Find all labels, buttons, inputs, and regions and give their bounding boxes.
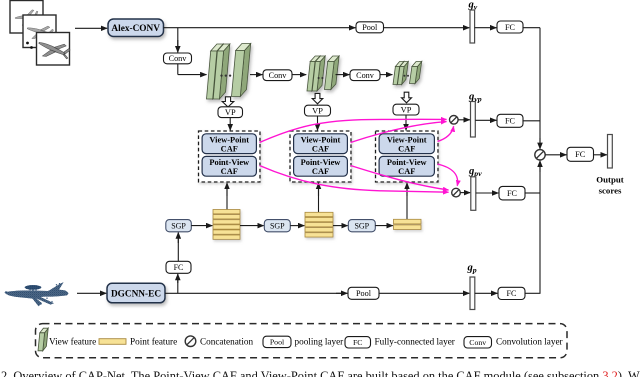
- wire stack2 to Point-View CAF2: [318, 184, 320, 212]
- wire VP3 to CAF3: [405, 115, 407, 130]
- g_pv bar: [471, 177, 476, 211]
- view feature maps 3: [393, 62, 422, 85]
- concat (final): [535, 150, 545, 160]
- CAF module 2 (dashed): [290, 131, 351, 182]
- legend FC: [345, 337, 371, 348]
- wire VP2 to CAF2: [317, 116, 319, 130]
- view feature maps 2: [307, 56, 339, 91]
- wire FC to bus: [523, 27, 540, 29]
- svg-text:Point-View: Point-View: [209, 158, 249, 167]
- FC (g_p): [498, 287, 525, 299]
- Conv3: [350, 70, 380, 81]
- svg-text:Conv: Conv: [269, 71, 288, 80]
- svg-text:FC: FC: [505, 117, 516, 126]
- svg-text:Convolution layer: Convolution layer: [496, 336, 563, 346]
- wire Conv3 to view feature 3: [380, 74, 392, 76]
- CAF module 3 (dashed): [376, 131, 439, 182]
- CAF module 1 (dashed): [199, 131, 261, 182]
- legend box: [36, 324, 568, 358]
- svg-text:View-Point: View-Point: [301, 135, 341, 144]
- block arrow 1: [222, 97, 234, 107]
- wire up to FC (point): [177, 277, 179, 294]
- svg-text:FC: FC: [575, 150, 586, 159]
- Point-View CAF 2: [294, 156, 348, 176]
- svg-text:Concatenation: Concatenation: [200, 336, 253, 346]
- output scores bar: [608, 135, 613, 169]
- Alex-CONV box: [108, 19, 164, 37]
- block arrow 2: [312, 93, 323, 103]
- svg-text:Fully-connected layer: Fully-connected layer: [375, 336, 455, 346]
- concat g_pv: [452, 188, 461, 197]
- wire DGCNN to Pool (bottom): [165, 292, 345, 294]
- legend view feature icon: [43, 328, 48, 351]
- legend Pool: [263, 336, 291, 347]
- SGP3: [348, 220, 375, 232]
- wire down to Conv1: [177, 28, 179, 50]
- svg-text:VP: VP: [401, 106, 412, 115]
- input view images stack: [10, 1, 73, 67]
- Conv1: [164, 53, 192, 64]
- svg-text:2. Overview of CAP-Net. The Po: 2. Overview of CAP-Net. The Point-View C…: [1, 369, 640, 377]
- svg-text:View-Point: View-Point: [387, 135, 427, 144]
- svg-text:Point-View: Point-View: [387, 158, 427, 167]
- legend Conv: [464, 337, 492, 348]
- svg-text:Conv: Conv: [169, 54, 188, 63]
- FC (g_v): [497, 21, 523, 33]
- point cloud airplane: [5, 282, 69, 306]
- Point-View CAF 3: [379, 156, 434, 176]
- view feature maps 1: [207, 44, 251, 100]
- svg-text:Pool: Pool: [356, 289, 372, 298]
- point feature stack 3: [394, 219, 422, 229]
- View-Point CAF 3: [379, 134, 434, 154]
- fusion curves View-Point CAFs to g_vp concat: [260, 119, 447, 142]
- svg-text:FC: FC: [507, 189, 518, 198]
- wire stack1 to SGP2: [240, 225, 264, 227]
- arrow to Alex-CONV: [75, 27, 107, 29]
- View-Point CAF 2: [294, 134, 348, 154]
- svg-text:CAF: CAF: [312, 167, 329, 176]
- View-Point CAF 1: [202, 134, 256, 154]
- svg-text:VP: VP: [312, 107, 323, 116]
- FC (final): [567, 147, 594, 161]
- wire stack2 to SGP3: [333, 225, 348, 227]
- SGP2: [264, 220, 290, 232]
- Pool (top): [356, 22, 384, 33]
- wire stack1 to Point-View CAF1: [226, 184, 228, 210]
- legend point feature icon: [99, 339, 126, 345]
- point feature stack 2: [305, 212, 333, 237]
- svg-text:DGCNN-EC: DGCNN-EC: [111, 290, 161, 300]
- svg-text:FC: FC: [505, 23, 516, 32]
- concat g_vp: [450, 116, 459, 125]
- svg-text:Conv: Conv: [356, 71, 375, 80]
- wire SGP3 to stack3: [375, 225, 393, 227]
- g_p bar: [470, 277, 475, 310]
- Conv2: [263, 70, 292, 81]
- svg-text:View feature: View feature: [49, 336, 96, 346]
- svg-text:View-Point: View-Point: [209, 135, 249, 144]
- g_v bar: [470, 10, 475, 43]
- svg-text:Pool: Pool: [270, 338, 285, 347]
- svg-text:CAF: CAF: [398, 144, 415, 153]
- svg-text:pooling layer: pooling layer: [295, 336, 344, 346]
- svg-text:VP: VP: [225, 108, 236, 117]
- svg-text:FC: FC: [174, 263, 184, 272]
- svg-text:CAF: CAF: [398, 167, 415, 176]
- VP box 2: [305, 105, 331, 116]
- Pool (bottom): [348, 287, 379, 299]
- VP box 3: [393, 104, 419, 115]
- point feature stack 1: [213, 210, 240, 240]
- wire Alex-CONV to Pool: [164, 27, 356, 29]
- arrow plane to DGCNN-EC: [77, 292, 106, 294]
- wire VP1 to CAF1: [229, 118, 231, 131]
- wire Conv2 to view feature 2: [292, 74, 306, 76]
- wire stack3 to Point-View CAF3: [406, 184, 408, 219]
- legend concatenation icon: [185, 336, 196, 347]
- wire FC to SGP1: [177, 237, 179, 262]
- wire Conv1 to view feature 1: [177, 64, 179, 75]
- wire SGP1 to stack1: [191, 225, 212, 227]
- svg-text:Point feature: Point feature: [130, 336, 177, 346]
- svg-text:scores: scores: [599, 186, 622, 196]
- svg-text:FC: FC: [353, 338, 363, 347]
- svg-text:FC: FC: [506, 289, 517, 298]
- svg-text:CAF: CAF: [312, 144, 329, 153]
- wire Pool to g_v bar: [384, 27, 470, 29]
- fusion curves Point-View CAFs to g_pv concat: [260, 166, 449, 193]
- VP box 1: [218, 107, 243, 118]
- svg-text:Pool: Pool: [362, 23, 378, 32]
- svg-text:Output: Output: [596, 175, 623, 185]
- g_vp bar: [471, 102, 476, 138]
- wire SGP2 to stack2: [290, 225, 304, 227]
- svg-text:SGP: SGP: [171, 221, 186, 230]
- svg-text:Point-View: Point-View: [301, 158, 341, 167]
- FC (g_pv): [499, 186, 525, 200]
- svg-text:SGP: SGP: [270, 221, 285, 230]
- svg-text:CAF: CAF: [221, 144, 238, 153]
- block arrow 3: [402, 92, 412, 103]
- wire to Conv2: [250, 74, 262, 76]
- svg-text:Alex-CONV: Alex-CONV: [111, 24, 160, 34]
- Point-View CAF 1: [202, 156, 256, 176]
- bus vertical: [539, 28, 541, 146]
- DGCNN-EC box: [107, 283, 165, 303]
- FC (g_vp): [497, 114, 523, 127]
- SGP1: [166, 220, 192, 232]
- svg-text:CAF: CAF: [221, 167, 238, 176]
- FC (point, small): [166, 261, 191, 273]
- svg-text:SGP: SGP: [354, 221, 369, 230]
- svg-text:Conv: Conv: [469, 338, 486, 347]
- wire to Conv3: [336, 74, 350, 76]
